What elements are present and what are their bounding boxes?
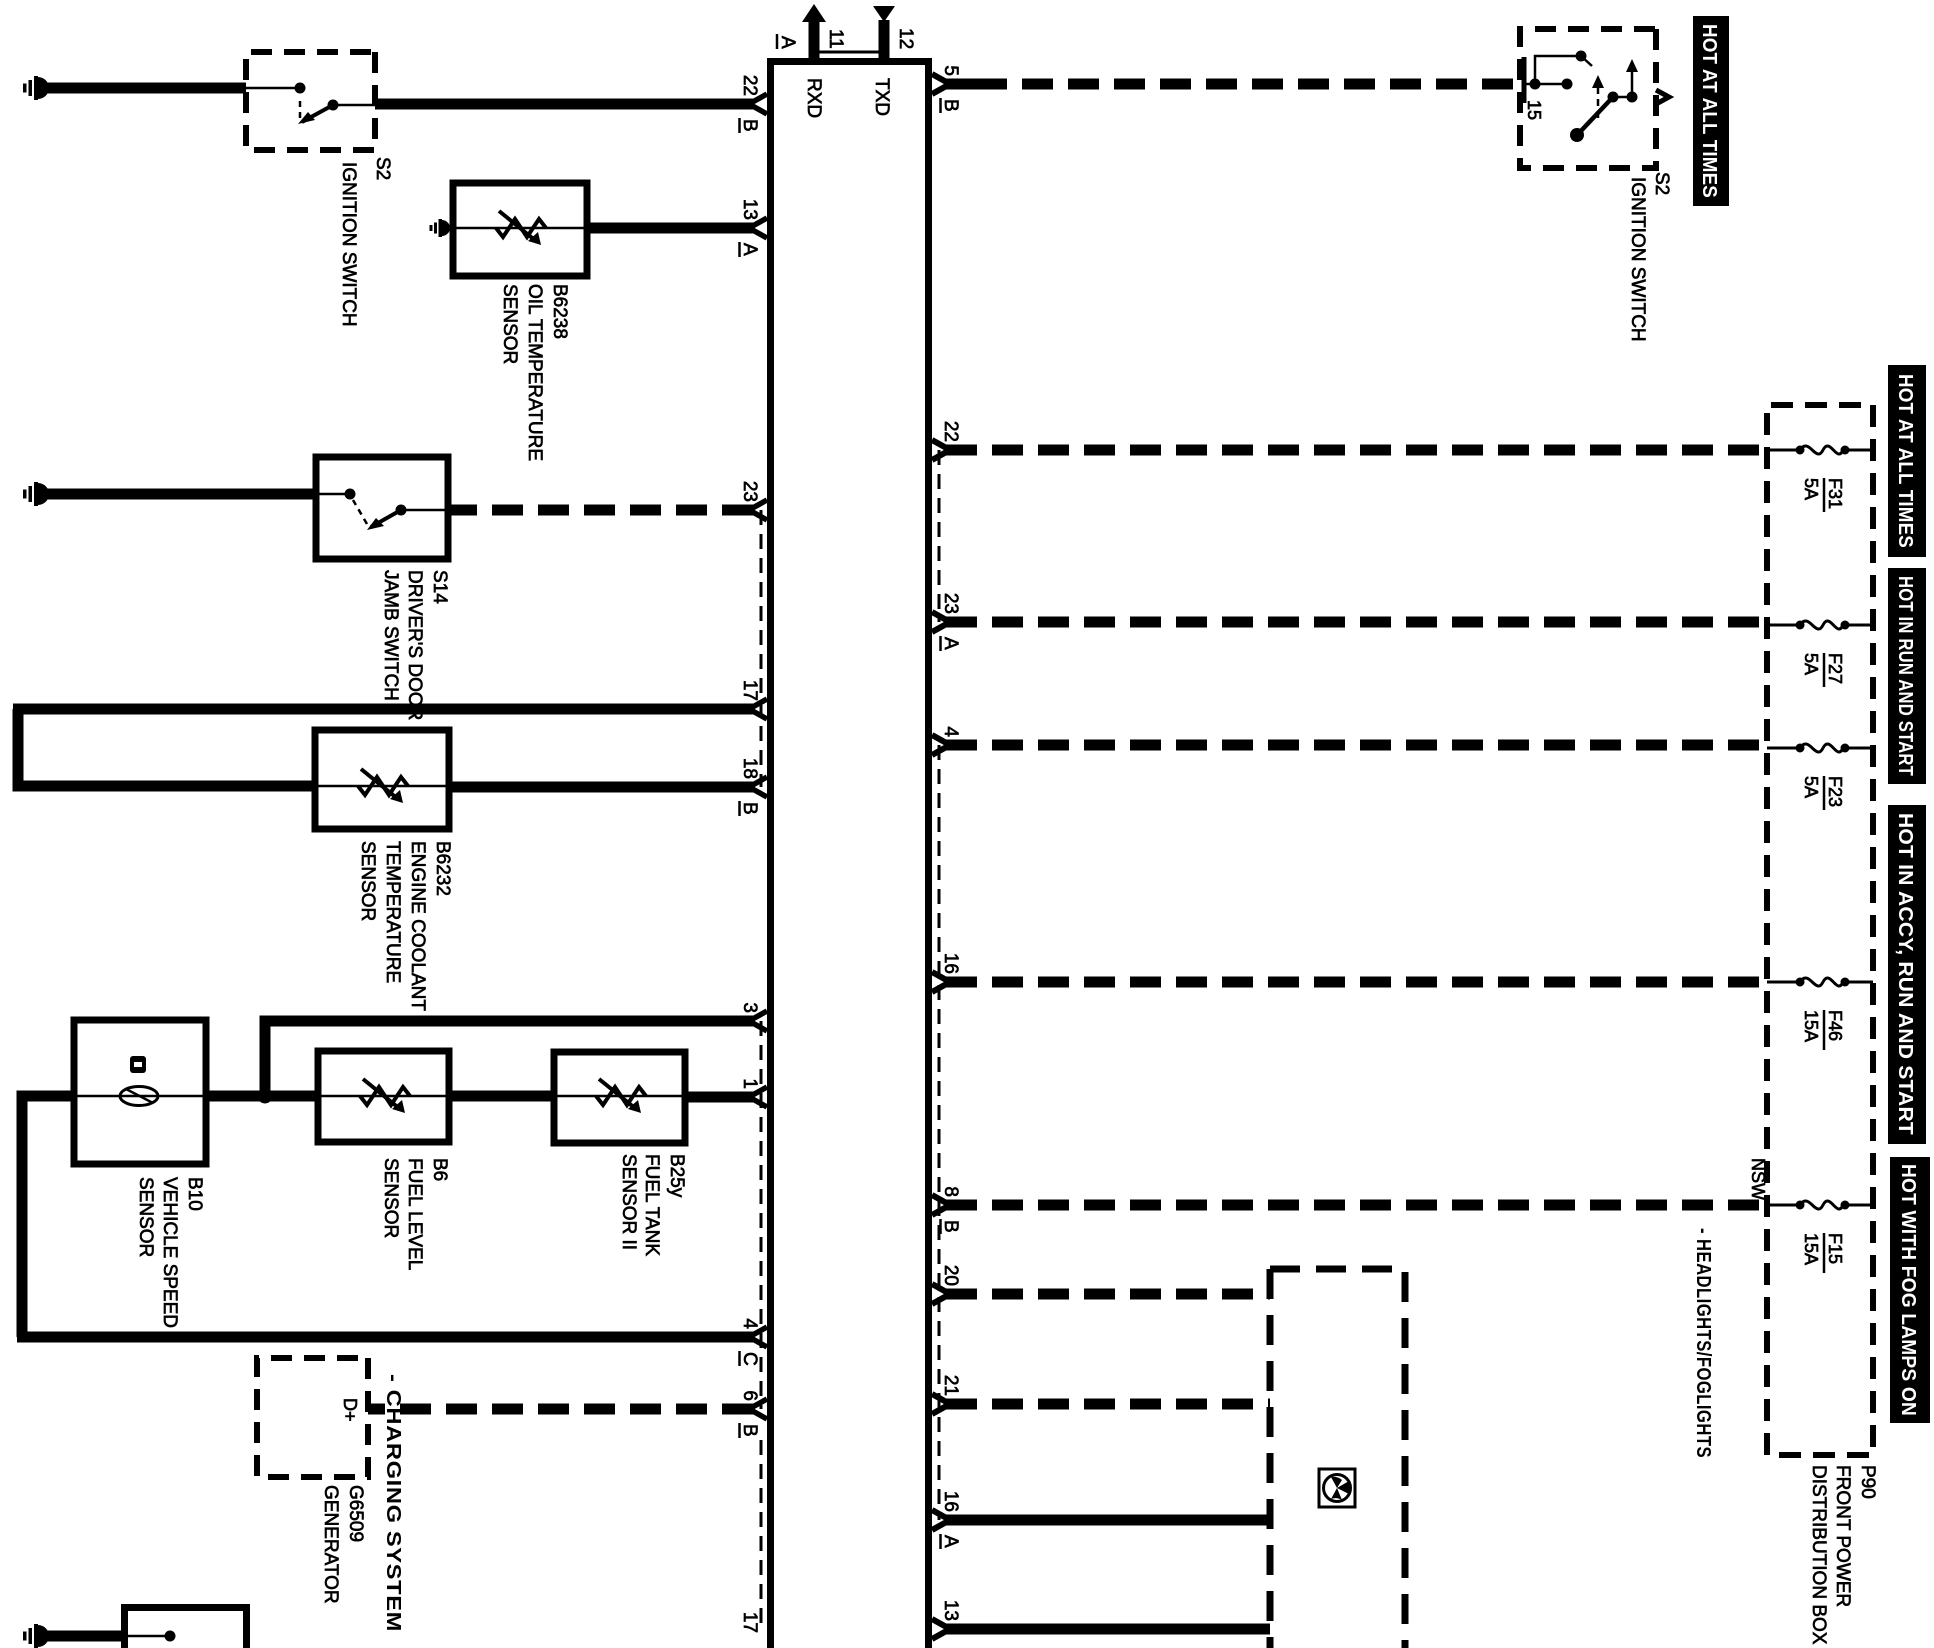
- pin 22/B connector (module bottom edge): [749, 94, 767, 114]
- junction node (pin3 / speed sensor): [258, 1089, 273, 1104]
- pin 22 connector (module top edge): [932, 440, 950, 460]
- wire pin 3: [265, 1016, 753, 1027]
- pin 4/C connector (module bottom edge): [749, 1327, 767, 1347]
- connector link line pins 11-12: [814, 51, 884, 54]
- module box (control unit): [771, 62, 929, 1648]
- ground symbol: [38, 483, 49, 505]
- svg-text:23: 23: [739, 481, 760, 502]
- P90 front power distribution box (dashed): [1767, 405, 1873, 1455]
- svg-text:B: B: [940, 1220, 961, 1233]
- svg-text:DRIVER'S DOOR: DRIVER'S DOOR: [404, 570, 425, 720]
- S14 internals: [404, 509, 448, 512]
- blower unit (dashed box, cut off): [1270, 1269, 1405, 1648]
- svg-text:16: 16: [940, 1491, 961, 1512]
- svg-text:IGNITION SWITCH: IGNITION SWITCH: [338, 162, 359, 327]
- S2 bottom internals: [336, 104, 375, 107]
- variable resistor element: [596, 1087, 646, 1105]
- svg-text:1: 1: [739, 1078, 760, 1089]
- svg-text:13: 13: [739, 199, 760, 220]
- pin 6/B connector (module bottom edge): [749, 1399, 767, 1419]
- wire B10 top to junction: [206, 1091, 318, 1102]
- svg-text:RXD: RXD: [803, 78, 824, 118]
- svg-text:F46: F46: [1825, 1010, 1845, 1041]
- svg-text:17: 17: [739, 1612, 760, 1633]
- svg-text:IGNITION SWITCH: IGNITION SWITCH: [1627, 177, 1648, 342]
- svg-text:B10: B10: [184, 1177, 205, 1211]
- wire pin 16: [946, 1515, 1270, 1526]
- svg-text:3: 3: [739, 1002, 760, 1013]
- svg-text:A: A: [940, 637, 961, 650]
- S2 top: switch lever: [1579, 97, 1613, 133]
- svg-text:JAMB SWITCH: JAMB SWITCH: [380, 570, 401, 701]
- svg-text:ENGINE COOLANT: ENGINE COOLANT: [407, 841, 428, 1011]
- svg-text:G6509: G6509: [345, 1485, 366, 1542]
- svg-text:15: 15: [1524, 100, 1544, 120]
- svg-text:HOT AT ALL TIMES: HOT AT ALL TIMES: [1894, 374, 1916, 548]
- ignition switch S2 (bottom) dashed box: [246, 52, 375, 150]
- svg-text:4: 4: [940, 726, 961, 737]
- wire pin 13: [946, 1624, 1270, 1635]
- svg-text:B: B: [940, 99, 961, 112]
- svg-text:- HEADLIGHTS/FOGLIGHTS: - HEADLIGHTS/FOGLIGHTS: [1692, 1228, 1714, 1458]
- svg-text:23: 23: [940, 593, 961, 614]
- ground symbol: [38, 77, 49, 99]
- svg-text:TEMPERATURE: TEMPERATURE: [382, 841, 403, 983]
- svg-text:12: 12: [895, 28, 916, 49]
- wire pin 23: [448, 505, 753, 516]
- wire S2 bottom to ground: [41, 83, 246, 94]
- wire pin 8: [946, 1200, 1767, 1211]
- vehicle speed sensor B10 box: [74, 1020, 206, 1164]
- svg-text:SENSOR II: SENSOR II: [618, 1154, 639, 1250]
- pin 21 connector (module top edge): [932, 1394, 950, 1414]
- svg-text:18: 18: [739, 758, 760, 779]
- svg-text:SENSOR: SENSOR: [380, 1158, 401, 1238]
- ground symbol: [38, 1625, 49, 1647]
- fuse F23 5A: [1767, 747, 1798, 750]
- S2 top: arrows: [1631, 68, 1634, 97]
- svg-text:17: 17: [739, 680, 760, 701]
- wire pin 16: [946, 977, 1767, 988]
- ignition switch S2 (top) dashed box: [1520, 29, 1656, 168]
- wire pin 18: [449, 782, 753, 793]
- svg-text:13: 13: [940, 1600, 961, 1621]
- wire pin 4: [17, 1332, 753, 1343]
- wire pin 17: [13, 704, 753, 715]
- wire pin 23: [946, 617, 1767, 628]
- svg-text:F31: F31: [1825, 478, 1845, 509]
- svg-text:11: 11: [825, 29, 846, 49]
- svg-text:16: 16: [940, 953, 961, 974]
- pin 16 connector (module top edge): [932, 972, 950, 992]
- pin 17 connector (module bottom edge): [749, 699, 767, 719]
- wire stub pin 5: [946, 79, 976, 90]
- pin 8/B connector (module top edge): [932, 1195, 950, 1215]
- fuse F27 5A: [1767, 624, 1798, 627]
- fuse F15 15A: [1767, 1204, 1798, 1207]
- svg-text:HOT AT ALL TIMES: HOT AT ALL TIMES: [1698, 24, 1720, 198]
- svg-text:B6: B6: [429, 1158, 450, 1181]
- pin 1 connector (module bottom edge): [749, 1087, 767, 1107]
- pin 5/B connector (module top edge): [932, 74, 950, 94]
- fuse F31 5A: [1767, 449, 1798, 452]
- connector dashed link line (bottom pins 23-17-18): [760, 510, 763, 787]
- svg-text:SENSOR: SENSOR: [135, 1177, 156, 1257]
- svg-text:5A: 5A: [1801, 653, 1821, 675]
- S2 top internals: [1522, 57, 1527, 103]
- banner HOT AT ALL TIMES (ignition switch): [1693, 16, 1729, 206]
- svg-text:4: 4: [739, 1318, 760, 1329]
- wire pin 1: [685, 1092, 753, 1103]
- svg-text:B: B: [739, 119, 760, 132]
- svg-text:HOT WITH FOG LAMPS ON: HOT WITH FOG LAMPS ON: [1897, 1164, 1919, 1416]
- svg-text:5: 5: [940, 65, 961, 76]
- svg-text:TXD: TXD: [871, 78, 892, 116]
- banner HOT AT ALL TIMES (fuse F31): [1888, 365, 1926, 557]
- pin 18/B connector (module bottom edge): [749, 777, 767, 797]
- svg-text:B: B: [739, 1424, 760, 1437]
- connector dashed link line (top pins 4-16-8-20-21-16A): [938, 745, 941, 1520]
- pin 13/A connector (module bottom edge): [749, 218, 767, 238]
- svg-text:OIL TEMPERATURE: OIL TEMPERATURE: [524, 284, 545, 461]
- pin 16/A connector (module top edge): [932, 1510, 950, 1530]
- svg-text:20: 20: [940, 1265, 961, 1286]
- generator G6509 dashed box: [257, 1358, 368, 1477]
- svg-text:22: 22: [739, 75, 760, 96]
- S2 top: output connector stub: [1656, 90, 1669, 104]
- wire B6232 loop to pin 17: [18, 709, 315, 786]
- svg-text:HOT IN ACCY, RUN AND START: HOT IN ACCY, RUN AND START: [1894, 813, 1916, 1135]
- svg-text:15A: 15A: [1801, 1233, 1821, 1265]
- driver's door jamb switch S14 box: [316, 457, 448, 559]
- pin 11 RXD arrow (points left): [802, 4, 826, 22]
- B10 rotor icon: [120, 1087, 158, 1106]
- engine coolant temperature sensor B6232 box: [315, 730, 449, 829]
- svg-text:A: A: [940, 1535, 961, 1548]
- pin 20 connector (module top edge): [932, 1284, 950, 1304]
- svg-text:6: 6: [739, 1390, 760, 1401]
- oil temperature sensor B6238 box: [453, 183, 587, 276]
- svg-text:B: B: [739, 802, 760, 815]
- svg-text:F27: F27: [1825, 653, 1845, 684]
- pin 23/A connector (module top edge): [932, 612, 950, 632]
- svg-text:D+: D+: [340, 1398, 360, 1422]
- wire B10 bottom loop to pin 4/C: [22, 1096, 74, 1337]
- variable resistor element: [496, 219, 546, 237]
- svg-text:P90: P90: [1857, 1465, 1878, 1499]
- wire pin 22: [375, 99, 753, 110]
- wire pin 13: [587, 223, 753, 234]
- wire pin 22: [946, 445, 1767, 456]
- svg-text:SENSOR: SENSOR: [499, 284, 520, 364]
- svg-text:15A: 15A: [1801, 1010, 1821, 1042]
- svg-text:C: C: [739, 1352, 760, 1366]
- svg-text:VEHICLE SPEED: VEHICLE SPEED: [159, 1177, 180, 1328]
- banner HOT WITH FOG LAMPS ON: [1890, 1157, 1930, 1423]
- pin 12 TXD arrow (points right): [873, 6, 895, 22]
- svg-text:B6238: B6238: [549, 284, 570, 339]
- wire pin 5: [976, 79, 1520, 90]
- wire B6 to B25y: [449, 1091, 554, 1102]
- svg-text:S2: S2: [372, 157, 393, 180]
- variable resistor element: [358, 777, 408, 795]
- pin 4 connector (module top edge): [932, 735, 950, 755]
- pin 23 connector (module bottom edge): [749, 500, 767, 520]
- svg-text:F23: F23: [1825, 776, 1845, 807]
- svg-text:FUEL LEVEL: FUEL LEVEL: [404, 1158, 425, 1270]
- pin 3 connector (module bottom edge): [749, 1011, 767, 1031]
- svg-text:B6232: B6232: [432, 841, 453, 896]
- svg-text:S14: S14: [429, 570, 450, 604]
- fuel tank sensor II B25y box: [554, 1052, 685, 1143]
- svg-text:A: A: [777, 36, 798, 49]
- fuse F46 15A: [1767, 981, 1798, 984]
- svg-text:A: A: [739, 243, 760, 256]
- B10 magnet icon: [130, 1056, 146, 1073]
- svg-text:B25y: B25y: [666, 1154, 687, 1198]
- banner HOT IN ACCY, RUN AND START: [1888, 805, 1926, 1144]
- connector dashed link line (bottom pins 6-17): [760, 1440, 763, 1630]
- partial box (cut off, bottom right): [125, 1608, 247, 1648]
- wire pin 6: [368, 1404, 753, 1415]
- svg-text:FRONT POWER: FRONT POWER: [1832, 1465, 1853, 1607]
- svg-text:F15: F15: [1825, 1233, 1845, 1264]
- svg-text:- CHARGING SYSTEM: - CHARGING SYSTEM: [382, 1374, 404, 1632]
- svg-text:GENERATOR: GENERATOR: [320, 1485, 341, 1604]
- svg-text:DISTRIBUTION BOX: DISTRIBUTION BOX: [1808, 1465, 1829, 1645]
- banner HOT IN RUN AND START: [1888, 568, 1926, 784]
- wire pin 4: [946, 740, 1767, 751]
- wire pin 20: [946, 1289, 1270, 1300]
- wire pin 3 elbow: [265, 1021, 269, 1096]
- wire partial box to ground: [41, 1631, 121, 1642]
- svg-text:FUEL TANK: FUEL TANK: [641, 1154, 662, 1256]
- svg-text:NSW: NSW: [1748, 1158, 1768, 1200]
- variable resistor element: [360, 1087, 410, 1105]
- wire S14 to ground: [41, 489, 316, 500]
- svg-text:22: 22: [940, 421, 961, 442]
- svg-text:5A: 5A: [1801, 776, 1821, 798]
- wire pin 21: [946, 1399, 1270, 1410]
- svg-text:HOT IN RUN AND START: HOT IN RUN AND START: [1894, 576, 1916, 776]
- fan icon: [1319, 1469, 1355, 1507]
- svg-text:S2: S2: [1651, 172, 1672, 195]
- connector dashed link line (top pins 22-23): [938, 450, 941, 622]
- svg-text:21: 21: [940, 1375, 961, 1396]
- connector dashed link line (bottom pins 3-1-4-6): [760, 1021, 763, 1409]
- svg-text:5A: 5A: [1801, 478, 1821, 500]
- pin 13 connector (module top edge): [932, 1619, 950, 1639]
- svg-text:8: 8: [940, 1186, 961, 1197]
- svg-text:SENSOR: SENSOR: [357, 841, 378, 921]
- fuel level sensor B6 box: [318, 1051, 449, 1142]
- mini ground (oil temp sensor): [442, 227, 453, 230]
